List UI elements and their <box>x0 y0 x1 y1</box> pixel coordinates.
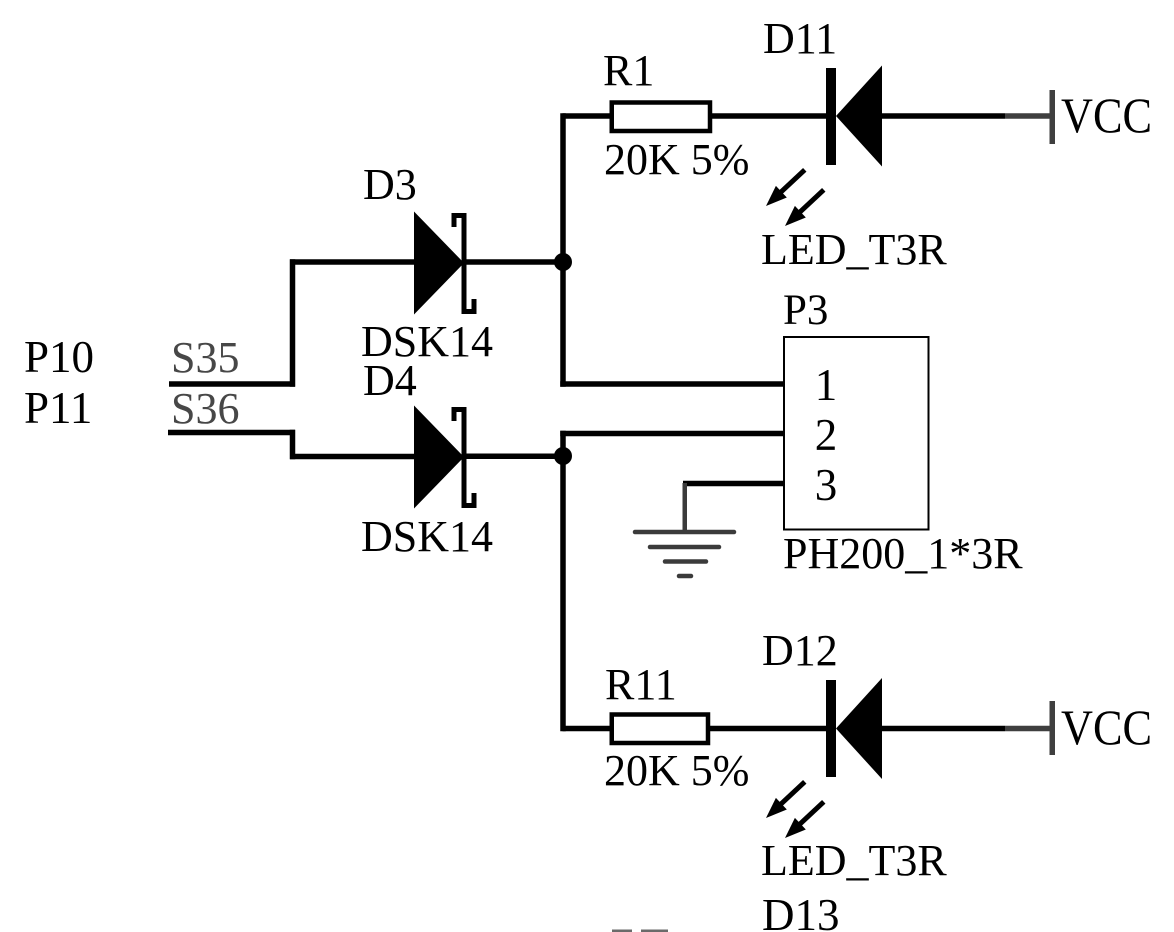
svg-text:D13: D13 <box>762 890 840 932</box>
wire vertical net1 <box>560 113 566 387</box>
wire D4 cathode to junction <box>464 454 564 460</box>
wire pin3 horizontal <box>683 481 784 487</box>
svg-text:S35: S35 <box>171 333 239 382</box>
svg-text:1: 1 <box>815 360 838 410</box>
svg-text:VCC: VCC <box>1061 87 1152 143</box>
svg-text:3: 3 <box>815 460 838 510</box>
wire D12 to VCC (gray part) <box>1005 726 1050 732</box>
svg-text:LED_T3R: LED_T3R <box>761 836 947 885</box>
wire S36 stub <box>168 430 295 436</box>
wire R1 left <box>563 113 613 119</box>
wire vertical net2 <box>560 431 566 732</box>
LED D12 cathode bar <box>826 680 836 777</box>
power symbol VCC bar (top) <box>1050 90 1056 144</box>
svg-text:2: 2 <box>815 410 838 460</box>
svg-text:R1: R1 <box>603 46 654 95</box>
LED D11 cathode bar <box>826 68 836 165</box>
connector P3 box <box>784 337 929 530</box>
wire D4 anode <box>290 454 415 460</box>
wire pin1 horizontal <box>560 381 784 387</box>
LED D11 body <box>836 66 882 167</box>
wire R1 to D11 <box>710 113 827 119</box>
wire D3 anode <box>290 259 415 265</box>
svg-text:20K 5%: 20K 5% <box>604 746 749 795</box>
svg-text:P3: P3 <box>783 287 828 334</box>
wire D12 to VCC (black part) <box>882 726 1005 732</box>
ground symbol <box>635 483 734 576</box>
diode D4 body <box>414 406 464 509</box>
wire S35 stub <box>169 381 295 387</box>
junction node D3/R1/pin1 <box>554 253 572 271</box>
diode D3 body <box>414 212 464 315</box>
LED D11 light arrow 2 <box>780 184 830 232</box>
resistor R11 body <box>612 715 708 744</box>
svg-text:LED_T3R: LED_T3R <box>761 225 947 274</box>
wire S35 riser up to D3 <box>290 259 296 387</box>
svg-text:DSK14: DSK14 <box>361 512 493 561</box>
wire D3 cathode to junction <box>464 259 564 265</box>
cut-off text fragment at bottom edge <box>612 930 668 932</box>
junction node D4/R11/pin2 <box>554 447 572 465</box>
LED D12 body <box>836 678 882 779</box>
wire S36 dropper to D4 <box>290 430 296 460</box>
svg-text:VCC: VCC <box>1061 699 1152 755</box>
power symbol VCC bar (bottom) <box>1050 701 1056 755</box>
wire pin2 horizontal <box>560 431 784 437</box>
LED D12 light arrow 1 <box>761 776 811 824</box>
wire R11 left <box>563 726 613 732</box>
LED D12 light arrow 2 <box>780 796 830 844</box>
svg-text:P11: P11 <box>24 383 92 433</box>
resistor R1 body <box>612 103 710 132</box>
wire D11 to VCC (black part) <box>882 113 1005 119</box>
diode D4 schottky cathode <box>452 407 477 508</box>
svg-text:D12: D12 <box>762 626 838 675</box>
wire R11 to D12 <box>708 726 827 732</box>
wire D11 to VCC (gray part) <box>1005 113 1050 119</box>
svg-text:D11: D11 <box>763 14 837 63</box>
svg-text:D4: D4 <box>363 356 417 405</box>
svg-text:P10: P10 <box>24 332 94 382</box>
svg-text:PH200_1*3R: PH200_1*3R <box>783 529 1023 578</box>
svg-text:D3: D3 <box>363 160 417 209</box>
svg-text:R11: R11 <box>605 660 677 709</box>
diode D3 schottky cathode <box>452 213 477 314</box>
LED D11 light arrow 1 <box>761 164 811 212</box>
svg-text:20K 5%: 20K 5% <box>604 135 749 184</box>
svg-text:S36: S36 <box>171 384 239 433</box>
